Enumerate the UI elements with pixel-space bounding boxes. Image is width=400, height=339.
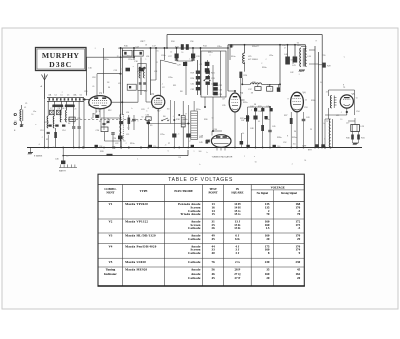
padder C9 — [69, 117, 75, 121]
tube V2 VP1322 IF amplifier — [152, 95, 165, 108]
svg-text:C60: C60 — [277, 146, 280, 148]
svg-text:V1: V1 — [109, 202, 113, 206]
wire: rectifier output — [325, 108, 348, 115]
capacitor C44 — [253, 107, 257, 148]
node: top rail junctions — [166, 44, 296, 49]
svg-text:.1: .1 — [251, 110, 253, 112]
wire: V1 to IFT1 top — [111, 91, 138, 103]
coupling box L13 — [127, 84, 136, 90]
svg-text:C43: C43 — [306, 117, 309, 119]
cathode capacitor C43 — [302, 112, 306, 148]
coil L7 — [65, 105, 75, 108]
resistor R32 — [346, 132, 354, 144]
svg-text:300: 300 — [199, 151, 202, 153]
svg-text:C35: C35 — [222, 105, 225, 107]
wire: vertical AVC line — [121, 48, 123, 115]
svg-text:C3: C3 — [14, 121, 16, 123]
switch S6 wave change — [161, 116, 168, 121]
wire: V2 grid left link — [146, 91, 152, 103]
wire: main chassis bus — [27, 147, 362, 149]
svg-text:Mazda Pen/DD/4020: Mazda Pen/DD/4020 — [125, 244, 157, 248]
detector stack labels — [191, 73, 196, 92]
trimmer C8 — [57, 110, 62, 115]
svg-text:C6: C6 — [80, 95, 82, 97]
svg-text:b: b — [324, 138, 325, 140]
svg-text:-5: -5 — [298, 226, 301, 230]
svg-text:R27: R27 — [284, 115, 287, 117]
wire: AVC drop from switch — [83, 101, 85, 148]
svg-text:.1: .1 — [162, 84, 164, 86]
switch wafer labels — [48, 94, 82, 97]
capacitor C17 box — [133, 46, 143, 56]
wire: osc loop — [101, 118, 121, 141]
svg-text:b: b — [132, 108, 133, 110]
wire: rail step at 228 — [227, 45, 229, 48]
svg-text:T1: T1 — [326, 121, 328, 123]
svg-text:47: 47 — [284, 48, 286, 50]
svg-text:a: a — [145, 59, 146, 61]
wire: rail above V1 — [87, 56, 135, 58]
svg-text:Cathode: Cathode — [188, 251, 201, 255]
resistor R19 — [196, 71, 200, 74]
svg-text:50: 50 — [292, 63, 294, 65]
resistor R13 — [128, 118, 136, 125]
wire: V2 anode diagonal to C27 — [161, 60, 177, 64]
resistor R25 smoothing — [323, 63, 332, 68]
rectifier heater winding L — [330, 96, 336, 109]
wire: switch drop 3 — [60, 101, 62, 110]
svg-text:.05: .05 — [156, 51, 159, 53]
svg-text:70: 70 — [266, 212, 270, 216]
node: rail junctions — [120, 56, 122, 58]
capacitor C29 — [177, 62, 187, 67]
svg-text:20: 20 — [266, 237, 270, 241]
svg-text:V3: V3 — [109, 234, 113, 238]
svg-text:b: b — [293, 56, 294, 58]
wire: switch drop 4 — [66, 101, 68, 110]
svg-text:300: 300 — [123, 140, 126, 142]
wire: bar to V1 grid — [84, 99, 89, 101]
svg-text:S11: S11 — [173, 85, 176, 87]
trimmer C2 — [20, 124, 24, 127]
svg-text:50: 50 — [31, 114, 33, 116]
table of voltages — [98, 174, 305, 286]
svg-text:26: 26 — [212, 226, 216, 230]
node: V3 bus — [234, 147, 236, 149]
svg-text:50: 50 — [291, 59, 293, 61]
svg-text:C52: C52 — [283, 142, 286, 144]
wire: V2 cathode down — [157, 109, 159, 148]
coil L4 — [60, 110, 61, 122]
wire: riser x134 — [133, 48, 135, 60]
svg-text:-3: -3 — [38, 144, 40, 146]
detector can stack caps — [213, 83, 222, 97]
wire: output transformer riser — [305, 45, 307, 50]
IF transformer IFT2 C28 — [191, 54, 201, 61]
svg-text:b: b — [207, 152, 208, 154]
title block MURPHY D38C — [36, 48, 87, 71]
svg-text:a: a — [254, 156, 255, 158]
svg-text:C58: C58 — [99, 146, 102, 148]
svg-text:C45: C45 — [272, 126, 275, 128]
svg-text:300: 300 — [127, 56, 130, 58]
wire: HT top rail left — [121, 47, 229, 49]
svg-text:C44: C44 — [258, 111, 261, 113]
node: bus dots right — [314, 147, 326, 149]
wire: rect box — [329, 90, 355, 119]
wire: V4 screen riser — [279, 45, 281, 92]
wire: riser x150 to IFT1 — [150, 48, 152, 95]
wire: V1 anode riser — [86, 57, 88, 95]
svg-text:.1: .1 — [137, 158, 139, 160]
svg-text:29: 29 — [297, 237, 301, 241]
svg-text:300: 300 — [167, 109, 170, 111]
svg-text:SQUARE: SQUARE — [231, 190, 243, 194]
electrolytic C40 — [284, 54, 290, 65]
wire: V4 cathode to bus — [296, 112, 298, 148]
wire: detector column risers — [197, 60, 199, 95]
svg-text:L2 L3: L2 L3 — [44, 122, 50, 124]
capacitor C51 — [240, 133, 244, 148]
wire: IFT2 link — [177, 60, 194, 62]
svg-text:50: 50 — [356, 98, 358, 100]
svg-text:47: 47 — [185, 114, 187, 116]
wire: C41 riser — [294, 45, 296, 57]
wire: V1 pins down — [96, 109, 104, 119]
svg-text:.05: .05 — [258, 121, 261, 123]
resistor R16 box — [118, 48, 132, 56]
wire: mixer grid link — [129, 115, 134, 130]
coil L24 IF stopper — [251, 81, 262, 84]
svg-text:V5: V5 — [109, 260, 113, 264]
capacitor C12 — [47, 131, 50, 133]
svg-text:1.5: 1.5 — [266, 226, 270, 230]
svg-text:R17: R17 — [152, 107, 155, 109]
svg-text:T3: T3 — [343, 87, 345, 89]
electrolytic C41 — [292, 57, 297, 67]
wire: V1 anode riser B — [103, 48, 105, 94]
svg-text:A1: A1 — [44, 75, 46, 78]
node: rf bus dots — [47, 147, 80, 149]
volume control R22 — [240, 107, 249, 148]
capacitor C11 — [78, 126, 81, 128]
capacitor C33 — [206, 76, 210, 79]
svg-text:50: 50 — [212, 118, 214, 120]
svg-text:10: 10 — [91, 118, 93, 120]
tube V3 HL/DD/1320 detector — [229, 93, 241, 112]
wire: switch drop 5 — [73, 101, 75, 126]
svg-text:S4: S4 — [68, 123, 70, 125]
svg-text:b: b — [199, 164, 200, 166]
svg-text:S9: S9 — [150, 125, 152, 127]
resistor R15 on rail — [186, 44, 189, 50]
capacitor C32 — [196, 87, 200, 90]
svg-text:50: 50 — [320, 82, 322, 84]
svg-text:C48: C48 — [250, 128, 253, 130]
resistor R14 on rail — [175, 44, 184, 50]
scattered labels pass 2 — [14, 41, 359, 145]
capacitor C31 — [196, 82, 200, 85]
resistor R21 — [206, 71, 210, 74]
svg-text:C13: C13 — [40, 130, 43, 132]
capacitor C45a — [268, 107, 271, 148]
wire: HT top rail right — [228, 44, 306, 46]
svg-text:C23: C23 — [141, 109, 144, 111]
ground: speaker return — [353, 143, 359, 145]
svg-text:230: 230 — [295, 260, 300, 264]
wire: vertical from HT rail to oscillator — [120, 48, 122, 141]
svg-text:50: 50 — [255, 161, 257, 163]
capacitor C21a — [139, 68, 144, 72]
wire: speaker feed — [321, 35, 323, 148]
svg-text:C14: C14 — [62, 130, 65, 132]
capacitor C24 — [113, 131, 123, 148]
capacitor C2a on detector rail — [200, 62, 210, 73]
svg-text:C1: C1 — [25, 103, 27, 105]
svg-text:No Signal: No Signal — [257, 192, 269, 195]
resistor R23 — [261, 107, 264, 148]
svg-text:Cathode: Cathode — [188, 237, 201, 241]
svg-text:-3: -3 — [168, 120, 170, 122]
svg-text:H.T. FIELD: H.T. FIELD — [248, 59, 259, 61]
speaker L27 — [346, 123, 365, 132]
label EHT — [303, 144, 325, 151]
svg-text:10: 10 — [170, 51, 172, 53]
svg-text:25: 25 — [74, 108, 76, 110]
wire: coil drop to bus — [47, 135, 49, 148]
svg-text:V2: V2 — [109, 220, 113, 224]
svg-text:15 G: 15 G — [234, 212, 241, 216]
stack labels right — [211, 73, 216, 86]
svg-text:TABLE OF VOLTAGES: TABLE OF VOLTAGES — [168, 177, 233, 183]
tube V1 TP2620 triode-pentode — [89, 96, 112, 109]
svg-text:NENT: NENT — [106, 190, 114, 194]
resistor R24 anode load — [239, 72, 248, 78]
svg-text:C59: C59 — [153, 146, 156, 148]
svg-text:25: 25 — [73, 123, 75, 125]
bus capacitor blobs — [95, 145, 281, 148]
svg-text:C4: C4 — [54, 95, 56, 97]
svg-text:.1: .1 — [209, 54, 211, 56]
svg-text:-3: -3 — [189, 141, 191, 143]
ground: mains earth — [28, 148, 43, 158]
wire: TI feed — [212, 129, 222, 136]
resistor R18 wirewound — [176, 101, 185, 148]
svg-text:.1: .1 — [291, 163, 293, 165]
capacitor C36 — [267, 84, 273, 91]
svg-text:Mazda TP2620: Mazda TP2620 — [125, 202, 148, 206]
tuning indicator tube ME920 — [211, 135, 231, 151]
wire: stack risers — [208, 60, 213, 95]
wire: switch drop 1 — [47, 101, 49, 116]
svg-text:C47: C47 — [241, 120, 244, 122]
trimmer C7 — [50, 110, 55, 115]
resistor R20 — [196, 76, 200, 79]
svg-text:25: 25 — [142, 41, 144, 43]
svg-text:27 P: 27 P — [234, 276, 240, 280]
svg-text:Cathode: Cathode — [188, 226, 201, 230]
cathode resistor R28 — [290, 112, 293, 148]
svg-text:b: b — [270, 89, 271, 91]
svg-text:C22: C22 — [115, 143, 118, 145]
svg-text:Mazda ME920: Mazda ME920 — [125, 268, 147, 272]
svg-text:2 G: 2 G — [235, 260, 240, 264]
svg-text:C53: C53 — [304, 107, 307, 109]
svg-text:10: 10 — [127, 127, 129, 129]
svg-text:L18: L18 — [154, 71, 157, 73]
svg-text:25: 25 — [310, 129, 312, 131]
capacitor C38 grid — [277, 87, 280, 91]
wire: lower earth bus — [63, 155, 188, 157]
svg-text:.05: .05 — [92, 86, 95, 88]
node: bus dots left — [95, 147, 105, 149]
svg-text:a: a — [35, 124, 36, 126]
component value annotations speckle — [31, 40, 357, 166]
node: aerial bus junction — [44, 147, 46, 149]
svg-text:27: 27 — [168, 143, 170, 145]
node: osc bus joins — [114, 147, 116, 149]
capacitor C10 — [72, 126, 75, 128]
svg-text:a: a — [62, 91, 63, 93]
svg-text:Strong Signal: Strong Signal — [281, 192, 297, 195]
svg-text:L14: L14 — [126, 112, 129, 114]
svg-text:R30: R30 — [204, 119, 207, 121]
coil L3 — [53, 116, 54, 128]
node: C46 junction — [62, 147, 64, 149]
wire: grid rail to V1 — [97, 73, 121, 75]
wire: mid horizontals — [89, 74, 156, 148]
svg-text:10: 10 — [340, 119, 342, 121]
svg-text:C42: C42 — [290, 72, 293, 74]
IF transformer IFT1 L16 L17 — [138, 64, 146, 91]
svg-text:Mazda U4020: Mazda U4020 — [125, 260, 146, 264]
wire: HT lead to rectifier — [314, 46, 316, 148]
svg-text:.1: .1 — [340, 112, 342, 114]
wire: switch drop 6 — [78, 101, 80, 126]
svg-text:b: b — [324, 123, 325, 125]
svg-text:E MAINS: E MAINS — [34, 155, 43, 158]
capacitor C30 — [146, 114, 191, 147]
svg-text:MURPHY: MURPHY — [42, 51, 80, 60]
wire: V3 column to bus — [234, 112, 236, 148]
extra junction dots — [82, 47, 331, 148]
V1 cathode components — [93, 113, 106, 130]
svg-text:C5: C5 — [67, 95, 69, 97]
svg-text:VOLTAGE: VOLTAGE — [271, 186, 285, 190]
node: lower junction dots — [247, 147, 271, 149]
ground: output transformer — [299, 69, 305, 71]
svg-text:6 K: 6 K — [235, 237, 240, 241]
wire: coupling run — [242, 78, 280, 87]
wire: smoothing link — [319, 64, 323, 66]
svg-text:1 7 8: 1 7 8 — [96, 111, 100, 113]
svg-text:R34: R34 — [171, 41, 174, 43]
capacitor C19 grid — [114, 68, 131, 73]
wire: left column to bus — [55, 128, 57, 148]
svg-text:13 K: 13 K — [234, 226, 241, 230]
svg-text:b: b — [137, 71, 138, 73]
svg-text:Cathode: Cathode — [188, 260, 201, 264]
node: V4 bus junctions — [290, 147, 304, 149]
padder C22 — [111, 133, 114, 148]
wire: speaker feed from transformer — [348, 118, 355, 125]
wire: L25 field riser — [244, 45, 246, 53]
svg-text:R17: R17 — [157, 111, 160, 113]
svg-text:b: b — [210, 140, 211, 142]
wire: riser x176 C27 — [176, 48, 178, 60]
resistor R31 — [199, 137, 208, 144]
svg-text:b: b — [138, 121, 139, 123]
svg-text:b: b — [168, 150, 169, 152]
svg-text:a: a — [194, 151, 195, 153]
capacitor C25 — [172, 101, 176, 148]
wire: V3 top to can — [228, 91, 235, 93]
svg-text:20: 20 — [297, 276, 301, 280]
svg-text:300: 300 — [256, 45, 259, 47]
wire: topmost rail drop at 167 — [166, 35, 168, 49]
svg-text:L5: L5 — [61, 95, 63, 97]
tube V5 U4020 rectifier — [340, 95, 353, 108]
capacitor C39 on rail — [230, 44, 232, 47]
svg-text:TUNING INDICATOR: TUNING INDICATOR — [212, 155, 233, 158]
svg-text:C16: C16 — [84, 91, 87, 93]
svg-text:30: 30 — [108, 87, 110, 89]
svg-text:C56: C56 — [190, 41, 193, 43]
svg-text:a: a — [133, 66, 134, 68]
svg-text:L4 L5: L4 L5 — [62, 108, 68, 110]
svg-text:20: 20 — [266, 276, 270, 280]
wire: topmost rail — [167, 34, 322, 36]
svg-text:TYPE: TYPE — [140, 189, 148, 193]
capacitor C20 — [96, 127, 109, 132]
wire: riser x193 C28 — [192, 48, 194, 60]
svg-text:40: 40 — [212, 251, 216, 255]
svg-text:Cathode: Cathode — [188, 276, 201, 280]
screening can detector unit — [201, 51, 226, 97]
wire: V2 anode up — [160, 60, 162, 96]
svg-text:-3: -3 — [178, 134, 180, 136]
svg-text:45: 45 — [212, 237, 216, 241]
wire: C40 riser — [287, 45, 289, 57]
node: switch output — [83, 98, 85, 100]
svg-text:Triode Anode: Triode Anode — [180, 212, 201, 216]
terminal E — [14, 122, 16, 124]
svg-text:L29: L29 — [336, 115, 339, 117]
svg-text:50: 50 — [242, 133, 244, 135]
svg-text:230: 230 — [265, 260, 270, 264]
svg-text:15: 15 — [212, 212, 216, 216]
svg-text:L16: L16 — [146, 56, 149, 58]
svg-text:C50: C50 — [214, 129, 217, 131]
svg-text:.05: .05 — [131, 57, 134, 59]
svg-text:300: 300 — [293, 143, 296, 145]
svg-text:V4: V4 — [109, 244, 113, 248]
output transformer T2 L26 — [297, 43, 312, 67]
node: V2 cathode bus — [157, 147, 159, 149]
ganged tuning capacitor link (dashed) — [60, 119, 150, 121]
svg-text:S7: S7 — [99, 121, 101, 123]
svg-text:.1: .1 — [189, 59, 191, 61]
svg-text:R1: R1 — [46, 139, 48, 141]
capacitor blobs row above — [246, 106, 273, 119]
wire: speaker leads top — [309, 50, 319, 64]
svg-text:10: 10 — [120, 68, 122, 70]
svg-text:70: 70 — [297, 212, 301, 216]
svg-text:50: 50 — [141, 116, 143, 118]
svg-text:C54: C54 — [356, 111, 359, 113]
capacitor C26 — [171, 100, 191, 148]
svg-text:50: 50 — [181, 52, 183, 54]
